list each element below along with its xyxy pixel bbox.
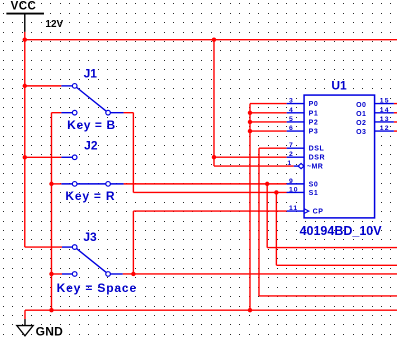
wire GND stem bbox=[24, 310, 26, 319]
wire VCC top rail bbox=[25, 39, 397, 41]
svg-text:P1: P1 bbox=[309, 110, 319, 117]
node J2 ground junction bbox=[49, 182, 53, 186]
wire data bus riser bbox=[249, 104, 251, 311]
svg-text:DSR: DSR bbox=[309, 155, 326, 162]
node GND rail bus junction bbox=[248, 308, 252, 312]
svg-text:J3: J3 bbox=[83, 230, 97, 244]
node S0 branch junction bbox=[265, 182, 269, 186]
svg-text:VCC: VCC bbox=[11, 1, 36, 13]
svg-text:1: 1 bbox=[287, 160, 291, 167]
node P1 junction bbox=[248, 111, 252, 115]
svg-text:P2: P2 bbox=[309, 119, 319, 126]
wire J2 ground stub bbox=[51, 183, 61, 185]
node CP junction bbox=[131, 272, 135, 276]
svg-text:12V: 12V bbox=[45, 19, 63, 30]
svg-text:12: 12 bbox=[380, 125, 390, 132]
node J1 feed junction bbox=[23, 84, 27, 88]
svg-text:11: 11 bbox=[289, 205, 298, 212]
node J3 ground junction bbox=[49, 272, 53, 276]
svg-text:Key = Space: Key = Space bbox=[57, 281, 137, 295]
IC U1 body bbox=[304, 95, 375, 218]
svg-text:14: 14 bbox=[380, 107, 390, 114]
svg-text:7: 7 bbox=[289, 142, 293, 149]
wire DSL feed bbox=[259, 148, 397, 296]
svg-text:4: 4 bbox=[289, 107, 293, 114]
wire ground riser bbox=[51, 113, 61, 311]
pin stubs U1 right bbox=[375, 104, 394, 132]
svg-text:2: 2 bbox=[289, 151, 293, 158]
switch J2 bbox=[61, 155, 123, 186]
node VCC branch junction bbox=[212, 37, 216, 41]
node DSR junction bbox=[212, 155, 216, 159]
wire MR feed bbox=[214, 165, 294, 167]
svg-text:J2: J2 bbox=[84, 138, 98, 152]
svg-text:S1: S1 bbox=[309, 190, 319, 197]
svg-text:O3: O3 bbox=[356, 129, 366, 136]
svg-text:Key = R: Key = R bbox=[65, 189, 115, 203]
svg-text:Key = B: Key = B bbox=[67, 118, 116, 132]
svg-text:3: 3 bbox=[289, 98, 293, 105]
svg-text:P0: P0 bbox=[309, 101, 319, 108]
wire output O0 pin15 bbox=[394, 103, 397, 105]
wire J3 output row bbox=[123, 273, 397, 275]
svg-text:O1: O1 bbox=[356, 111, 366, 118]
svg-text:15: 15 bbox=[380, 98, 390, 105]
svg-text:13: 13 bbox=[380, 116, 390, 123]
pin 1 bubble MR bbox=[298, 163, 304, 168]
svg-text:U1: U1 bbox=[331, 78, 347, 92]
node GND rail left junction bbox=[49, 308, 53, 312]
node VCC rail junction bbox=[23, 37, 27, 41]
wire P2 feed pin5 bbox=[250, 121, 287, 123]
wire J1 top feed bbox=[25, 85, 62, 87]
svg-text:O2: O2 bbox=[356, 120, 366, 127]
wire J2 output to S0 bbox=[124, 183, 287, 185]
wire P3 feed pin6 bbox=[250, 130, 287, 132]
wire S1 branch right bbox=[276, 192, 397, 265]
wire output O1 pin14 bbox=[394, 112, 397, 114]
pin stubs U1 left bbox=[287, 104, 304, 212]
wire P1 feed pin4 bbox=[250, 112, 287, 114]
node J2 feed junction bbox=[23, 155, 27, 159]
svg-text:CP: CP bbox=[313, 209, 324, 216]
svg-text:S0: S0 bbox=[309, 181, 319, 188]
node P3 junction bbox=[248, 129, 252, 133]
svg-text:P3: P3 bbox=[309, 129, 319, 136]
wire J2 top feed bbox=[25, 156, 62, 158]
wire J3 top feed bbox=[25, 246, 62, 248]
wire output O2 pin13 bbox=[394, 121, 397, 123]
svg-text:O0: O0 bbox=[356, 102, 366, 109]
power VCC bbox=[6, 14, 44, 32]
svg-text:J1: J1 bbox=[84, 66, 98, 80]
switch J3 bbox=[62, 245, 123, 277]
wire VCC vertical rail bbox=[24, 32, 26, 247]
svg-text:~MR: ~MR bbox=[307, 164, 323, 171]
svg-text:10: 10 bbox=[289, 186, 299, 193]
pin 11 clock wedge bbox=[304, 209, 309, 214]
wire J1 output to S1 bbox=[124, 113, 287, 193]
wire VCC branch vertical bbox=[213, 40, 215, 166]
wire J3 ground stub bbox=[51, 273, 62, 275]
svg-text:9: 9 bbox=[289, 178, 293, 185]
wire P0 feed pin3 bbox=[250, 103, 287, 105]
node S1 branch junction bbox=[274, 190, 278, 194]
wire GND rail bbox=[25, 309, 397, 311]
svg-text:DSL: DSL bbox=[309, 146, 325, 153]
wire DSR feed bbox=[214, 156, 287, 158]
svg-text:6: 6 bbox=[289, 125, 293, 132]
svg-text:5: 5 bbox=[289, 116, 293, 123]
ground bbox=[17, 319, 33, 336]
wire output O3 pin12 bbox=[394, 130, 397, 132]
svg-text:GND: GND bbox=[36, 325, 64, 338]
wire CP riser bbox=[133, 211, 286, 274]
node P2 junction bbox=[248, 120, 252, 124]
svg-text:40194BD_10V: 40194BD_10V bbox=[300, 224, 383, 238]
switch J1 bbox=[61, 84, 123, 115]
wire S0 branch right bbox=[267, 184, 397, 248]
